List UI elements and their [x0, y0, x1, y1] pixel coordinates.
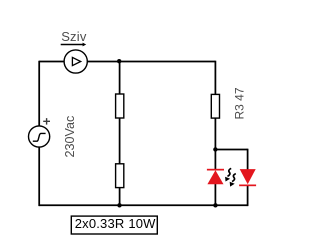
wire right vertical above R3: [214, 61, 216, 95]
current probe direction arrow line: [61, 44, 83, 46]
resistor R2: [116, 164, 124, 188]
current probe Sziv circle: [64, 50, 87, 73]
wire middle vertical above R1: [119, 62, 121, 95]
svg-text:2x0.33R 10W: 2x0.33R 10W: [75, 216, 156, 231]
current probe triangle: [72, 57, 80, 65]
wire top left horizontal: [39, 61, 64, 63]
wire right LED vertical upper: [247, 149, 249, 170]
svg-text:230Vac: 230Vac: [63, 116, 77, 158]
wire left LED to bottom: [214, 184, 216, 206]
resistor R3: [211, 94, 219, 118]
voltage source plus sign: [43, 118, 50, 125]
node junction bottom middle: [117, 203, 121, 207]
value label box: [71, 216, 157, 234]
voltage source circle: [28, 126, 49, 147]
node junction LED branch top: [213, 147, 217, 151]
LED D1 left cathode bar: [207, 169, 224, 171]
wire middle vertical below R2: [119, 187, 121, 205]
wire right LED vertical lower: [247, 186, 249, 207]
node junction bottom right: [213, 203, 217, 207]
voltage source waveform: [33, 133, 46, 141]
wire LED branch top horizontal: [215, 149, 247, 151]
LED D2 right triangle (pointing down): [240, 169, 256, 184]
LED D1 left triangle (pointing up): [207, 170, 223, 184]
svg-text:Sziv: Sziv: [61, 29, 87, 44]
svg-text:R3 47: R3 47: [232, 87, 246, 119]
wire middle vertical between R1 R2: [119, 118, 121, 165]
LED emission arrows heads: [225, 177, 235, 187]
node junction top middle: [117, 59, 121, 63]
wire left vertical lower: [38, 147, 40, 206]
LED D2 right cathode bar: [239, 185, 256, 187]
wire top right horizontal: [87, 61, 215, 63]
wire bottom horizontal: [39, 204, 247, 206]
wire left vertical upper: [38, 61, 40, 127]
LED emission arrows shafts: [228, 168, 236, 181]
current probe direction arrow head: [83, 43, 87, 47]
resistor R1: [116, 94, 124, 118]
wire right vertical R3 to LED junction: [214, 118, 216, 170]
